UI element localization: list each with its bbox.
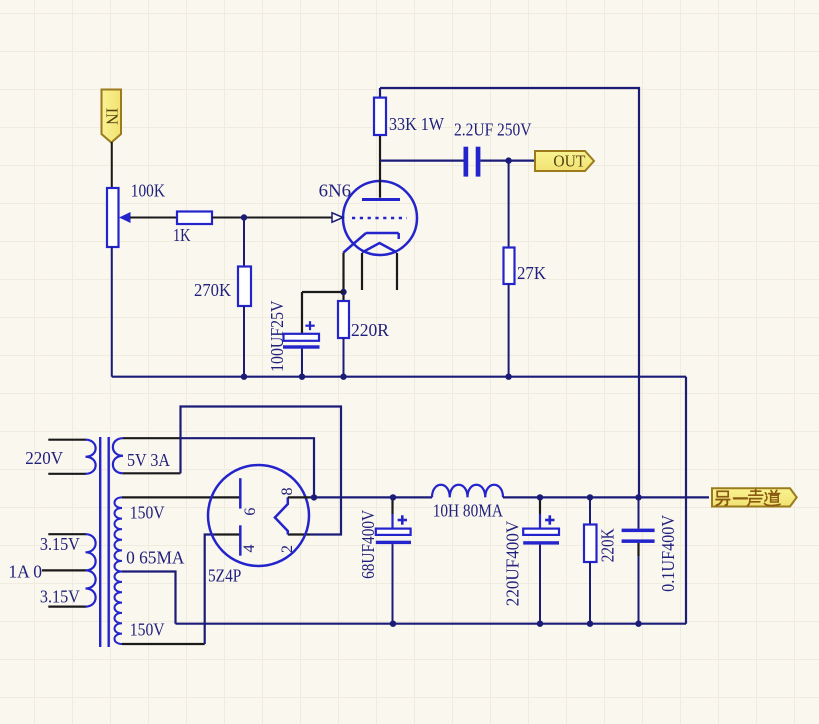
wire ground return right side — [685, 377, 687, 624]
wire pin 8 B+ rail — [288, 496, 310, 498]
wire 270K to ground bus — [243, 306, 245, 377]
resistor 33K 1W — [374, 88, 386, 135]
wire plate node to coupling cap — [380, 160, 464, 162]
wire 5V bottom lead loop to pin 2 — [181, 407, 342, 535]
junction 0.1UF top / B+ drop — [635, 494, 641, 500]
transformer HV secondary winding upper 150V — [115, 497, 241, 571]
wire IN to potentiometer — [111, 142, 113, 188]
transformer heater 3.15V windings — [42, 534, 96, 606]
svg-text:220V: 220V — [25, 448, 63, 468]
port OUT — [535, 151, 594, 171]
tube 5Z4P filament — [275, 497, 288, 534]
wire 1K to grid node — [212, 217, 332, 219]
svg-text:220UF400V: 220UF400V — [503, 521, 523, 606]
wire 27K to ground bus — [508, 284, 510, 377]
junction 220UF top — [537, 494, 543, 500]
wire ground bus bottom — [176, 623, 687, 625]
wire coupling cap to OUT — [480, 160, 535, 162]
tube 6N6 cathode — [344, 233, 399, 253]
transformer primary 220V winding — [48, 440, 95, 474]
transformer HV center tap lead — [122, 572, 176, 624]
capacitor 100UF25V (cathode bypass) — [283, 292, 320, 377]
hanzi 另 — [716, 491, 729, 505]
wire potentiometer bottom to ground bus — [111, 247, 113, 377]
tube 6N6 grid arrow — [332, 213, 343, 222]
svg-text:4: 4 — [241, 545, 258, 553]
svg-text:2.2UF 250V: 2.2UF 250V — [454, 120, 532, 140]
potentiometer 100K body — [107, 188, 131, 247]
wire wiper to 1K — [130, 217, 177, 219]
junction OUT node — [505, 157, 511, 163]
svg-text:OUT: OUT — [553, 152, 586, 171]
tube 6N6 grid (dotted) — [352, 217, 407, 220]
resistor 270K — [238, 267, 251, 307]
svg-text:1K: 1K — [173, 225, 191, 245]
wire cathode down — [342, 253, 344, 302]
svg-text:0.1UF400V: 0.1UF400V — [658, 515, 678, 592]
svg-text:33K 1W: 33K 1W — [389, 114, 444, 134]
resistor 1K — [177, 212, 212, 225]
capacitor 68UF400V — [376, 497, 411, 623]
tube 6N6 heater pin leads — [362, 253, 397, 290]
svg-text:220K: 220K — [598, 528, 618, 562]
svg-text:0 65MA: 0 65MA — [126, 547, 184, 567]
svg-text:150V: 150V — [130, 619, 165, 639]
junction ground bus dots — [390, 621, 642, 627]
svg-text:10H 80MA: 10H 80MA — [433, 500, 503, 520]
wire 220R to ground bus — [343, 338, 345, 377]
resistor 220K — [584, 497, 597, 623]
wire grid node down to 270K — [243, 218, 245, 267]
junction bus dots — [241, 374, 512, 380]
svg-text:8: 8 — [279, 488, 296, 496]
port IN — [102, 90, 122, 143]
transformer HV secondary winding lower 150V — [115, 572, 205, 645]
svg-text:27K: 27K — [517, 263, 546, 283]
svg-text:68UF400V: 68UF400V — [358, 510, 378, 579]
svg-text:5V 3A: 5V 3A — [127, 450, 170, 470]
svg-text:1A 0: 1A 0 — [8, 562, 42, 582]
transformer 5V 3A winding — [113, 438, 181, 473]
tube 5Z4P plate pin 6 — [240, 478, 259, 515]
svg-text:6: 6 — [242, 508, 259, 516]
hanzi 声 — [747, 489, 762, 505]
svg-text:3.15V: 3.15V — [40, 534, 80, 554]
junction 5V top at rail — [311, 494, 317, 500]
tube 5Z4P plate pin 4 — [240, 525, 258, 555]
junction grid node — [241, 214, 247, 220]
resistor 27K — [504, 248, 515, 285]
port 另一声道 (other channel) — [712, 488, 797, 506]
wire cathode node to bypass cap — [302, 291, 344, 293]
tube 6N6 envelope — [343, 181, 417, 255]
svg-text:2: 2 — [279, 545, 296, 553]
junction 68UF top — [390, 494, 396, 500]
svg-text:3.15V: 3.15V — [40, 587, 80, 607]
wire amp ground bus — [112, 376, 686, 378]
svg-text:220R: 220R — [351, 320, 389, 340]
wire top B+ L from 33K to right drop — [380, 88, 639, 497]
svg-text:150V: 150V — [130, 503, 165, 523]
hanzi 道 — [764, 490, 780, 505]
wire 5V top lead to cathode node (B+) — [181, 438, 315, 497]
junction 220K top — [587, 494, 593, 500]
wire OUT node to 27K — [508, 161, 510, 248]
capacitor 220UF400V — [523, 497, 559, 623]
tube 6N6 plate — [362, 135, 400, 200]
capacitor 0.1UF400V — [622, 497, 655, 623]
junction cathode node — [340, 289, 346, 295]
svg-text:100K: 100K — [131, 180, 165, 200]
svg-text:6N6: 6N6 — [319, 181, 351, 201]
svg-text:270K: 270K — [194, 280, 231, 300]
svg-text:5Z4P: 5Z4P — [208, 566, 241, 586]
resistor 220R — [338, 301, 349, 338]
tube 5Z4P envelope — [208, 465, 309, 566]
hanzi 一 — [734, 497, 747, 499]
svg-text:IN: IN — [103, 108, 122, 125]
tube 6N6 heater — [362, 243, 397, 253]
svg-text:100UF25V: 100UF25V — [267, 301, 287, 372]
wire lower 150V to plate 4 — [205, 535, 215, 645]
wire B+ rail after choke — [503, 496, 709, 498]
inductor choke 10H 80MA — [432, 485, 503, 498]
capacitor 2.2UF 250V — [464, 147, 481, 177]
transformer core — [100, 437, 109, 647]
